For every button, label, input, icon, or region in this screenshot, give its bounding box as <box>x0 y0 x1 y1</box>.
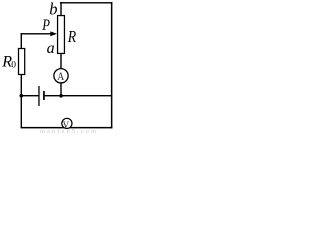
battery long plate <box>38 86 39 106</box>
wire bottom <box>21 127 113 128</box>
resistor R0 <box>19 49 25 75</box>
wire wiper shaft <box>21 33 52 34</box>
wire middle battery row left segment <box>21 95 39 96</box>
ammeter A circle <box>54 69 68 83</box>
svg-text:0: 0 <box>11 61 16 71</box>
svg-text:A: A <box>57 71 65 83</box>
wire rheostat branch vertical (top stub through to middle wire) <box>60 2 61 96</box>
rheostat R body <box>58 16 65 54</box>
voltmeter V circle <box>62 118 72 128</box>
svg-text:P: P <box>42 17 51 34</box>
svg-text:R: R <box>67 27 77 46</box>
wiper arrowhead <box>50 31 57 36</box>
svg-text:a: a <box>47 40 55 57</box>
junction dot ammeter branch <box>59 94 63 98</box>
svg-text:V: V <box>63 120 70 130</box>
wire right vertical <box>111 2 113 128</box>
wire top: from rheostat stub to top-right corner <box>60 2 113 3</box>
battery short plate <box>43 91 45 100</box>
junction dot left (battery branch) <box>20 94 24 98</box>
svg-text:b: b <box>49 0 57 19</box>
wire left vertical branch <box>21 33 22 128</box>
wire middle battery row right segment <box>45 95 112 96</box>
